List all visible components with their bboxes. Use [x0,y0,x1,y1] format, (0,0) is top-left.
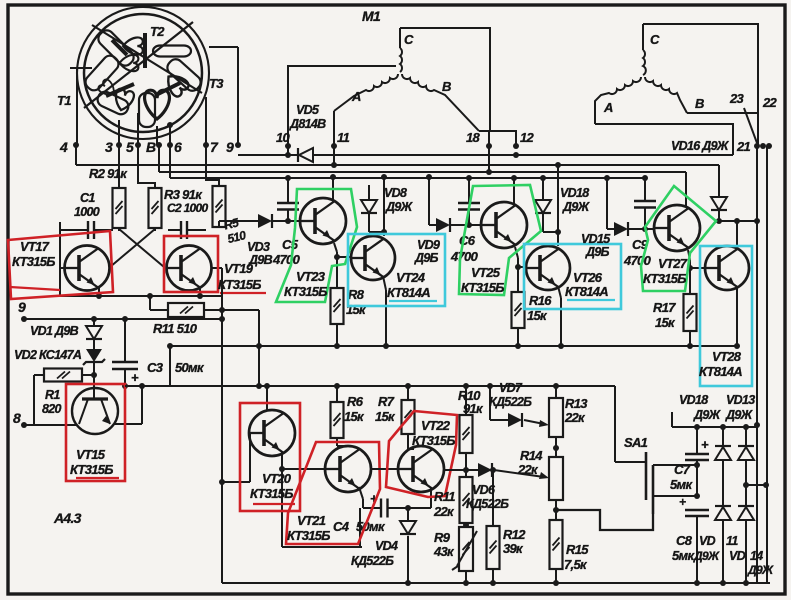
svg-text:C8: C8 [676,533,693,548]
svg-text:VD5: VD5 [296,103,320,117]
capacitor C2 [180,221,182,239]
wire VD15 out [607,228,614,230]
wire bus 386 [125,385,615,387]
svg-text:T2: T2 [150,24,165,39]
wire SA1 to C8 [653,495,697,497]
capacitor C7 [696,427,698,454]
wire C9 col [644,178,646,201]
transistor VT19 [167,246,212,291]
wire node 11 lead [333,111,335,146]
svg-text:VT15: VT15 [76,447,106,462]
wire VT25 base [469,224,481,226]
wire cross couple 1 [119,229,164,267]
transistor VT20 [249,410,295,456]
wire C8 bottom [696,516,698,583]
svg-text:50мк: 50мк [175,360,205,375]
stator winding loops [123,37,143,54]
svg-text:VD16 Д9Ж: VD16 Д9Ж [671,139,730,153]
motor winding left B [402,74,479,131]
wire R6 bottom [336,438,338,446]
svg-text:B: B [695,96,704,111]
svg-text:VD3: VD3 [247,240,270,254]
red highlight VT22 [386,411,457,497]
diode VD5 [297,148,299,162]
diode VD14 bridge [745,461,747,506]
svg-text:39к: 39к [503,541,524,556]
svg-text:Д9Б: Д9Б [414,251,439,265]
resistor R11-22k [460,477,473,523]
svg-text:+: + [679,495,686,509]
svg-text:Д9Ж: Д9Ж [693,549,720,563]
wire VT24 base [337,256,351,258]
svg-text:КД522Б: КД522Б [351,554,394,568]
svg-text:VD15: VD15 [581,232,611,246]
svg-text:12: 12 [520,130,535,145]
wire pin 7 drop [205,97,207,145]
svg-text:Д814В: Д814В [289,117,326,131]
wire VT22 emitter [430,487,432,508]
wire VT17 emitter [98,287,100,296]
wire R2 top [118,145,120,188]
diode VD3 [258,214,272,228]
diode VD18 bridge [722,427,724,446]
svg-text:4: 4 [59,139,68,155]
svg-text:VT24: VT24 [396,270,426,285]
wire R12 bottom [492,569,494,583]
wire C2 leads [168,229,181,231]
svg-text:22к: 22к [564,410,586,425]
svg-text:C5: C5 [282,237,299,252]
red underline VT15 [76,477,119,479]
wire VT19 base [212,267,222,269]
wire C5 col [287,178,289,203]
wire emitter row 547 [282,546,362,548]
wire R13 bottom [555,437,557,457]
svg-text:КТ814А: КТ814А [387,285,430,300]
wire VT23 base [272,220,300,222]
svg-text:КТ315Б: КТ315Б [284,284,327,299]
svg-text:22к: 22к [433,504,455,519]
transistor VT21 [325,446,371,492]
node 21 dots [754,143,760,149]
svg-text:C7: C7 [674,462,691,477]
svg-text:VD: VD [699,534,716,548]
red highlight VT15 [66,384,125,481]
transistor VT27 [654,205,700,251]
svg-text:VD2 КС147А: VD2 КС147А [14,348,82,362]
green highlight VT25 [459,185,541,295]
resistor R8 [331,288,344,324]
wire VD16 bottom [718,210,720,221]
wire 23 pointer [744,108,757,143]
svg-text:КТ315Б: КТ315Б [412,433,455,448]
svg-text:3: 3 [105,139,113,155]
wire VT28 collector [736,221,738,246]
cyan highlight VT26 [524,244,621,309]
svg-text:15к: 15к [344,409,365,424]
wire pin 3 drop [118,120,120,145]
wire VT19 col down [221,268,223,583]
diode VD9 [436,218,450,232]
svg-text:M1: M1 [362,8,381,24]
resistor R13 [555,386,557,398]
svg-text:A: A [351,89,361,104]
svg-text:21: 21 [736,139,751,154]
stator pole pieces [95,27,136,68]
svg-text:VD4: VD4 [375,539,398,553]
wire VT27 base [645,228,654,230]
resistor R12 [492,470,494,526]
svg-text:C4: C4 [333,519,350,534]
svg-text:B: B [442,79,451,94]
svg-text:C2 1000: C2 1000 [167,201,208,215]
wire SA1 feed [614,386,616,462]
capacitor C4 [380,499,382,518]
transistor VT22 [398,446,444,492]
svg-text:A: A [603,100,613,115]
svg-text:R3 91к: R3 91к [164,187,203,202]
svg-text:VD6: VD6 [472,483,496,497]
diode VD4 [407,508,409,521]
wire C7 bottom [696,460,698,496]
wire 12 to L1 [513,152,519,158]
wire VT20 emitter [281,451,283,547]
wire VT28 emitter [736,286,738,346]
svg-text:VD18: VD18 [679,393,708,407]
cyan underline VT26 [567,299,615,301]
svg-text:10: 10 [276,130,291,145]
capacitor C5 [277,202,299,204]
svg-text:Д9Ж: Д9Ж [693,408,722,422]
svg-text:R12: R12 [503,527,526,542]
svg-text:КТ315Б: КТ315Б [287,528,330,543]
svg-text:R16: R16 [529,293,552,308]
wire R15 bottom [555,569,557,583]
cyan underline VT24 [389,300,437,302]
wire VT28 base [690,267,705,269]
wire right col 767 [766,146,768,583]
svg-text:R11: R11 [434,489,455,504]
wire VD18 bottom [542,213,544,232]
wire VD9 out [429,224,436,226]
wire motor left frame [400,28,490,131]
diode VD11 bridge [722,461,724,506]
wire R5 top [206,145,219,186]
svg-text:Д9Ж: Д9Ж [725,408,754,422]
resistor R7 [407,386,409,400]
transistor VT25 [481,202,527,248]
wire 10 to L1 [287,146,289,155]
svg-text:А4.3: А4.3 [53,510,82,526]
wire VD6 row [444,469,478,471]
svg-text:4700: 4700 [623,253,652,268]
resistor R16 [512,292,525,328]
wire R8 bottom [336,324,338,346]
diode VD13 bridge [745,427,747,446]
svg-text:VD7: VD7 [499,381,523,395]
svg-text:91к: 91к [463,401,484,416]
svg-text:9: 9 [18,299,26,315]
transistor VT15 top-bar style [72,388,118,434]
svg-text:VD: VD [729,549,746,563]
svg-text:VD18: VD18 [560,186,589,200]
wire VT17 base [60,267,67,269]
thermistor R9 [465,523,467,527]
svg-text:R17: R17 [653,300,676,315]
label R5 510 [223,214,248,246]
wire T1 lead to pin 4 [76,68,78,145]
svg-text:R6: R6 [347,394,364,409]
svg-text:R7: R7 [378,394,395,409]
wire node 18 lead [488,131,490,146]
svg-text:VT23: VT23 [296,269,326,284]
svg-text:11: 11 [337,130,350,145]
transistor VT24 [351,236,395,280]
wire VD9 feed [428,177,430,225]
wire motor right frame [643,24,758,113]
wire node 10 lead [288,66,396,146]
diode VD6 [478,463,492,477]
wire R3 top [138,145,155,188]
wire col170 [169,346,171,386]
wire R7 bottom [407,434,409,449]
wire VD11 bottom [722,521,724,583]
svg-text:T3: T3 [209,76,224,91]
wire R2 bottom [118,228,120,231]
wire VD2 bottom [93,362,95,399]
wire VT26 base [518,266,526,268]
svg-text:VT20: VT20 [262,471,292,486]
diode VD18 [542,178,544,200]
wire VT23 emitter [334,243,337,252]
svg-text:9: 9 [226,139,234,155]
wire VT23 collector [332,177,334,200]
stator bars [143,33,147,68]
svg-text:1000: 1000 [74,205,100,219]
svg-text:50мк: 50мк [356,519,386,534]
wire VD3 lead [218,221,220,227]
cyan highlight VT24 [348,234,445,306]
wire C6 col [468,178,470,203]
resistor R5 [213,186,226,227]
svg-text:4700: 4700 [272,252,301,267]
svg-text:C1: C1 [80,191,95,205]
svg-text:5мк: 5мк [672,548,695,563]
svg-text:КТ315Б: КТ315Б [250,486,293,501]
wire right bottom lead [595,124,733,155]
wire VT27 collector [685,172,687,207]
diode VD1 [93,319,95,326]
svg-text:14: 14 [750,549,763,563]
green highlight VT23 [276,189,357,302]
wire VT26 emitter [558,286,561,298]
resistor R1 [44,369,82,382]
svg-text:VD1 Д9В: VD1 Д9В [30,324,79,338]
wire 11 to L2 [333,146,335,165]
svg-text:+: + [131,370,139,385]
wire col R11-510 down [258,310,260,386]
wire R3 bottom [154,228,156,231]
wire VD14 bottom [745,521,747,583]
resistor R6 [336,386,338,402]
svg-text:КТ814А: КТ814А [699,364,742,379]
transistor VT23 [300,198,346,244]
transistor VT28 [705,246,749,290]
svg-text:8: 8 [13,410,21,426]
svg-text:VT25: VT25 [471,265,501,280]
wire C9 bottom [644,208,646,229]
wire VT20 base [222,481,250,483]
svg-text:+: + [701,437,709,452]
svg-text:R8: R8 [348,287,365,302]
wire C1 leads [60,229,88,231]
svg-text:18: 18 [466,130,481,145]
wire VT24 collector [383,177,385,236]
wire pin 6 drop [169,125,171,145]
svg-text:VD13: VD13 [726,393,755,407]
svg-text:КТ315Б: КТ315Б [70,462,113,477]
motor winding right B [645,77,687,113]
resistor R17 [684,294,697,331]
svg-text:КД522Б: КД522Б [466,497,509,511]
wire bus L2 [75,145,77,165]
svg-text:КТ315Б: КТ315Б [643,271,686,286]
svg-text:VT22: VT22 [421,418,451,433]
wire R16 bottom [517,328,519,346]
wire VD7 feed [489,386,491,420]
wire R1 leads [34,374,44,376]
wire 18 to L3 [488,146,490,172]
crossing leads through stator [84,22,193,108]
wire VT24 emitter [383,276,386,290]
svg-text:22: 22 [762,95,778,110]
wire bridge top rail [672,426,757,428]
wire bus L1 [238,154,297,156]
wire pin 9 riser [237,47,239,145]
svg-text:R9: R9 [434,530,451,545]
wire VT25 collector [513,178,515,204]
svg-text:КТ315Б: КТ315Б [12,254,55,269]
wire R14 bottom [555,500,557,520]
svg-text:Д9Ж: Д9Ж [562,200,591,214]
selsyn stator T1-T3 outer circle [84,14,202,132]
red underline VT17 [10,287,60,290]
motor winding left A [334,74,398,111]
svg-text:R13: R13 [565,396,588,411]
svg-text:R1: R1 [45,388,60,402]
svg-text:7,5к: 7,5к [564,557,588,572]
capacitor C3 [112,361,138,363]
svg-text:VT27: VT27 [658,256,688,271]
wire VT22 base [371,468,398,470]
cyan highlight VT28 [700,246,752,386]
svg-text:R11 510: R11 510 [153,321,198,336]
svg-text:Д9Б: Д9Б [585,245,610,259]
capacitor C8 [685,509,709,511]
resistor R10 [465,386,467,415]
resistor R2 [113,188,126,228]
capacitor C9 [634,200,656,202]
svg-text:5мк: 5мк [670,477,693,492]
wire VT21 emitter [359,487,363,499]
svg-text:11: 11 [726,534,738,548]
svg-text:КТ315Б: КТ315Б [218,277,261,292]
svg-text:VT17: VT17 [20,239,50,254]
wire R9 bottom [465,571,467,583]
diode VD8 [368,185,370,200]
wire main bus 346 [170,345,737,347]
red highlight VT17 [8,231,113,299]
svg-text:Д9Ж: Д9Ж [385,200,414,214]
svg-text:R14: R14 [520,448,543,463]
svg-text:КТ315Б: КТ315Б [461,280,504,295]
green highlight VT27 [641,186,716,291]
wire R11 row [149,296,151,310]
motor winding right C [642,24,644,50]
svg-text:4700: 4700 [450,249,479,264]
red highlight VT21 [286,442,380,544]
switch SA1 [645,452,648,500]
svg-text:VD9: VD9 [417,238,440,252]
wire C6 bottom [468,210,470,227]
motor winding left C [399,28,401,48]
wire right col 757 [756,146,758,583]
svg-text:Д9В: Д9В [248,253,273,267]
wire pin 5 drop [137,113,139,145]
wire VD7 lead [490,419,508,421]
svg-text:22к: 22к [517,462,539,477]
wire left rail [59,222,61,296]
red underline VT19 [220,292,266,294]
wire VT27 emitter [688,250,690,260]
svg-text:VT21: VT21 [297,513,326,528]
red highlight VT20 [240,403,300,511]
svg-text:23: 23 [729,91,745,106]
svg-text:15к: 15к [655,315,676,330]
svg-text:В: В [146,139,156,155]
wire emitter rail [60,295,222,297]
wire cross couple 2 [110,229,155,267]
wire VT26 collector [557,165,559,246]
diode VD16 [718,165,720,197]
diode VD15 [614,222,628,236]
svg-text:5: 5 [126,139,134,155]
wire C3 bottom [124,369,126,386]
resistor R3 [149,188,162,228]
svg-text:43к: 43к [433,544,455,559]
red underline VT20 [253,503,295,505]
wire bus L3 [158,145,160,172]
svg-text:6: 6 [174,139,182,155]
transistor VT17 [65,246,110,291]
wire VT15 emitter [114,423,142,425]
diode VD7 [508,413,522,427]
wire VT19 emitter [199,287,201,296]
wire SA1 staircase [556,510,653,530]
svg-text:C: C [404,32,414,47]
svg-text:SA1: SA1 [624,435,648,450]
svg-text:15к: 15к [375,409,396,424]
capacitor C6 [458,202,480,204]
wire pin B drop [156,126,158,145]
transistor VT26 [526,246,570,290]
capacitor C1 [87,221,89,239]
svg-text:R15: R15 [566,542,589,557]
wire VT25 emitter [515,247,518,258]
wire node8 row [24,424,77,426]
resistor R14 [549,457,563,500]
zener VD2 [93,339,95,349]
